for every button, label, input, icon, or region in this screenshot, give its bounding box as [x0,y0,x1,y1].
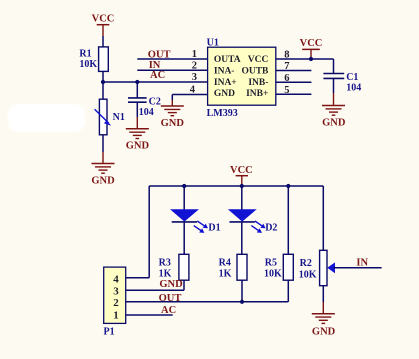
svg-text:AC: AC [150,70,165,81]
wire VCC bus [149,185,323,187]
svg-text:VCC: VCC [92,13,115,24]
wire R4 to OUT line [241,280,243,302]
wire AC net (node to U1 pin3) [103,81,208,83]
svg-text:4: 4 [113,274,119,286]
svg-text:R1: R1 [79,49,91,60]
capacitor C2 [128,97,161,118]
power VCC (top left) [92,13,115,36]
wire bus corner to R2 [322,186,324,250]
wire GND net (P1 pin3 to R3) [126,289,184,291]
resistor R4 [219,254,247,280]
wire U1 pin5 stub [276,93,312,95]
svg-text:4: 4 [190,85,196,96]
power VCC (right of U1) [300,38,323,59]
svg-text:VCC: VCC [248,55,269,65]
wire bus to D2 [241,186,243,210]
junction node R4/OUT [240,300,244,304]
wire C1 to GND [333,78,335,93]
svg-text:R2: R2 [300,258,312,269]
wire R5 to OUT line [287,280,289,302]
svg-text:104: 104 [139,107,154,118]
junction node R1/N1 [101,80,105,84]
svg-text:7: 7 [284,61,289,72]
ground (below C2) [126,129,150,152]
wire IN net to R2 wiper [334,267,382,269]
wire node to N1 [102,82,104,99]
wire C2 to GND [136,102,138,117]
potentiometer R2 [299,250,335,285]
svg-text:2: 2 [192,61,197,72]
junction node D1 [182,184,186,188]
svg-text:1: 1 [113,309,119,321]
op-amp U1 (LM393) [207,37,276,119]
wire R1 to node [102,71,104,82]
wire D1 to R3 [183,222,185,254]
svg-text:LM393: LM393 [207,108,238,119]
wire VCC to R1 [102,36,104,47]
svg-text:GND: GND [214,89,235,99]
svg-text:OUTA: OUTA [214,55,241,65]
wire bus to D1 [183,186,185,210]
resistor R5 [264,254,293,280]
svg-text:1K: 1K [219,268,232,279]
svg-text:GND: GND [161,118,185,129]
junction node pin8/VCC [309,57,313,61]
svg-text:INB+: INB+ [246,89,268,99]
wire N1 to GND [102,135,104,152]
wire R2 to GND [322,286,324,302]
capacitor C1 [323,72,361,94]
svg-text:5: 5 [284,85,289,96]
svg-text:6: 6 [284,73,289,84]
power VCC (bottom section) [230,165,253,186]
wire VCC node to C1 [311,58,334,60]
svg-text:INA+: INA+ [214,78,237,88]
svg-text:10K: 10K [299,270,317,281]
wire bus left corner down to P1 pin4 [148,186,150,278]
svg-text:INA-: INA- [214,66,235,76]
ground (U1 pin4) [161,106,185,129]
svg-text:10K: 10K [264,268,282,279]
ground (below C1) [322,106,346,129]
svg-text:8: 8 [284,50,289,61]
wire OUT net (P1 pin2 to R4/R5) [126,301,289,303]
junction node VCC [240,184,244,188]
svg-text:3: 3 [192,72,197,83]
svg-text:OUT: OUT [159,293,182,304]
svg-text:OUT: OUT [148,50,171,61]
svg-text:104: 104 [346,83,361,94]
wire node to C2 [136,82,138,98]
ground (below N1) [91,164,115,187]
junction node R5 [286,184,290,188]
wire D2 to R4 [241,222,243,254]
svg-text:GND: GND [322,117,346,128]
svg-text:GND: GND [91,175,115,186]
wire R3 to GND line [183,280,185,290]
wire bus to R5 [287,186,289,254]
svg-text:D2: D2 [265,223,277,234]
wire OUT net (U1 pin1 stub) [137,58,207,60]
wire IN net (U1 pin2 stub) [137,69,207,71]
svg-text:INB-: INB- [248,78,268,88]
svg-text:1K: 1K [159,268,172,279]
wire U1 pin8 to VCC node [276,58,311,60]
resistor R3 [159,254,189,280]
wire U1 pin4 to ground [172,94,207,96]
svg-text:2: 2 [113,297,119,309]
svg-text:N1: N1 [113,112,125,123]
svg-text:GND: GND [126,141,150,152]
wire U1 pin6 stub [276,81,312,83]
svg-text:IN: IN [356,258,368,269]
svg-text:R5: R5 [265,258,277,269]
svg-text:AC: AC [161,305,176,316]
wire U1 pin7 stub [276,70,312,72]
svg-text:OUTB: OUTB [241,66,269,76]
svg-text:R3: R3 [159,258,171,269]
svg-text:10K: 10K [79,59,97,70]
svg-text:3: 3 [113,285,119,297]
svg-text:VCC: VCC [300,38,323,49]
ground (below R2) [312,314,336,338]
junction node C2 [135,80,139,84]
svg-text:R4: R4 [219,258,231,269]
connector P1 [104,267,126,337]
thermistor N1 [95,99,125,135]
svg-text:1: 1 [192,49,197,60]
svg-text:GND: GND [312,327,336,338]
LED D2 [229,210,277,234]
white patch (erased area) [8,104,85,132]
resistor R1 [79,47,108,72]
svg-text:C1: C1 [346,72,358,83]
svg-text:VCC: VCC [230,165,253,176]
LED D1 [171,210,220,234]
wire AC net (P1 pin1 stub) [126,314,173,316]
svg-text:D1: D1 [208,223,220,234]
svg-text:P1: P1 [104,326,115,337]
svg-text:GND: GND [159,279,183,290]
